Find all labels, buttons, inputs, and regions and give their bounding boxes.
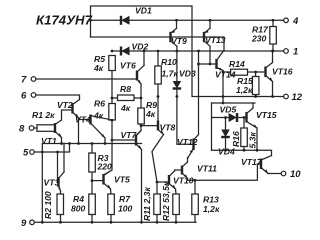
wire bottom rail pin 9 bbox=[34, 221, 196, 223]
svg-text:VT15: VT15 bbox=[256, 110, 277, 120]
resistor R12 53,5к bbox=[173, 194, 180, 215]
wire VD1 line H2 to pin 4 bbox=[91, 19, 284, 21]
wire VD3 vertical from VT9 collector to VT12 base bbox=[176, 46, 178, 81]
svg-text:R16: R16 bbox=[231, 131, 241, 147]
wire pin 6 to VT2 collector bbox=[36, 95, 80, 100]
resistor R5 4к bbox=[109, 56, 116, 71]
svg-text:R2 100: R2 100 bbox=[43, 191, 53, 219]
svg-text:VD2: VD2 bbox=[132, 42, 149, 52]
svg-text:VT12: VT12 bbox=[177, 137, 198, 147]
wire R5/R8/R6 vertical x=112 bbox=[111, 71, 113, 105]
svg-text:9: 9 bbox=[21, 218, 27, 229]
svg-text:VT14: VT14 bbox=[215, 70, 236, 80]
wire VT1 collector to VT2 base bbox=[62, 110, 73, 120]
resistor R15 1,2к bbox=[252, 77, 259, 95]
transistor VT6 bbox=[120, 61, 144, 85]
pin 4 bbox=[284, 18, 289, 23]
svg-text:К174УН7: К174УН7 bbox=[36, 13, 93, 28]
wire VT14 base line bbox=[199, 63, 217, 65]
wire VT6 collector up to VD2 line bbox=[143, 51, 145, 66]
svg-text:R4: R4 bbox=[73, 194, 84, 204]
wire R resistor bottoms to rail bbox=[60, 215, 62, 223]
pin 7 bbox=[31, 77, 36, 82]
svg-text:R10: R10 bbox=[161, 57, 177, 67]
svg-text:VD5: VD5 bbox=[220, 105, 237, 115]
wire VT12 collector up to VD2 line bbox=[198, 51, 200, 135]
svg-text:VT11: VT11 bbox=[197, 164, 217, 174]
wire VT9 emitter up bbox=[176, 20, 178, 28]
svg-text:4: 4 bbox=[292, 16, 299, 27]
transistor VT8 bbox=[158, 121, 175, 135]
transistor VT4 bbox=[75, 115, 111, 139]
svg-text:VT4: VT4 bbox=[75, 115, 91, 125]
svg-text:VD1: VD1 bbox=[135, 6, 152, 16]
svg-text:VT16: VT16 bbox=[272, 67, 293, 77]
wire VT15 collector up to box top bbox=[252, 103, 254, 108]
transistor VT11 bbox=[182, 162, 217, 179]
junction dots bbox=[89, 19, 92, 22]
svg-text:R11 2,3к: R11 2,3к bbox=[142, 187, 152, 221]
svg-text:1,2к: 1,2к bbox=[236, 85, 253, 95]
wire VT3 base drop bbox=[58, 152, 59, 182]
transistor VT15 bbox=[247, 108, 277, 128]
transistor VT9 pnp bbox=[171, 28, 187, 46]
wire pin 7 to VT6 base bbox=[36, 78, 137, 80]
wire bias box left edge bbox=[211, 103, 213, 150]
svg-text:VT2: VT2 bbox=[57, 100, 73, 110]
resistor R6 4к bbox=[109, 104, 116, 121]
svg-text:VT9: VT9 bbox=[171, 36, 187, 46]
resistor R17 230 bbox=[270, 27, 277, 45]
resistor R10 1,7к bbox=[155, 66, 162, 84]
wire VD4 stubs bbox=[225, 118, 227, 130]
wire base rail H3 VT9/VT13 with corner to VT14 collector bbox=[91, 37, 225, 50]
wire VT4 emitter down bbox=[104, 138, 106, 144]
wire R6 bottom to VT7 base junction and VT5 collector bbox=[104, 120, 113, 175]
wire pin 5 lead bbox=[34, 144, 69, 153]
svg-text:4к: 4к bbox=[120, 103, 131, 113]
wire R9 bottom / VT7 collector / VT8 base node bbox=[136, 124, 141, 136]
svg-text:12: 12 bbox=[292, 92, 303, 103]
wire VT13 emitter up bbox=[209, 20, 211, 28]
svg-text:R8: R8 bbox=[120, 84, 131, 94]
pin 10 bbox=[281, 171, 286, 176]
wire R8 right to VT6 emitter vertical bbox=[134, 97, 141, 99]
wire R14 right to VT16 base bbox=[248, 71, 266, 73]
pin 1 bbox=[284, 49, 289, 54]
svg-text:R12 53,5к: R12 53,5к bbox=[161, 181, 171, 221]
transistor VT13 pnp bbox=[204, 28, 226, 46]
wire VT11 collector to VT12 emitter bbox=[187, 158, 190, 163]
wire R10 bottom to VT8 collector bbox=[157, 84, 159, 121]
wire VD2 line to pin 1 bbox=[112, 50, 284, 52]
svg-text:VT17: VT17 bbox=[241, 157, 263, 167]
svg-text:7: 7 bbox=[21, 75, 27, 86]
svg-text:6: 6 bbox=[21, 91, 27, 102]
wire VT5 emitter to R7 bbox=[110, 189, 113, 194]
svg-text:4к: 4к bbox=[93, 111, 104, 121]
wire VT3 emitter to R2 bbox=[60, 191, 62, 194]
wire VT5 base bbox=[92, 180, 104, 182]
wire VT8 base bbox=[141, 125, 158, 127]
svg-text:VT13: VT13 bbox=[205, 35, 226, 45]
wire bias box bottom bbox=[212, 150, 272, 155]
svg-text:R1 2к: R1 2к bbox=[32, 110, 55, 120]
resistor R8 4к horizontal bbox=[118, 95, 135, 101]
svg-text:5,3к: 5,3к bbox=[248, 132, 258, 149]
wire VT2 emitter down / VT4 base bbox=[78, 118, 80, 144]
pin 6 bbox=[31, 93, 36, 98]
wire R8 left stub bbox=[112, 97, 118, 99]
svg-text:4к: 4к bbox=[145, 109, 156, 119]
wire VT10 emitter to R12 bbox=[175, 189, 178, 194]
diode VD1 bbox=[121, 6, 152, 25]
diode VD2 bbox=[121, 42, 148, 56]
pin 8 bbox=[29, 126, 34, 131]
svg-text:VT5: VT5 bbox=[114, 175, 130, 185]
wire VT17 emitter to pin 10 bbox=[268, 173, 281, 175]
svg-text:1,7к: 1,7к bbox=[162, 69, 179, 79]
wire VT13 collector down to VT14 base line bbox=[209, 46, 211, 64]
svg-text:VD4: VD4 bbox=[218, 147, 235, 157]
resistor R1 2к bbox=[37, 125, 55, 132]
wire VT8 emitter path to VT10 base bbox=[152, 135, 164, 183]
wire VT1 emitter down bbox=[61, 138, 63, 144]
wire VT7 base bbox=[112, 139, 136, 141]
wire VT11 emitter line to VT17 base bbox=[188, 164, 262, 180]
resistor R11 2,3к bbox=[154, 194, 161, 215]
wire R17 stubs bbox=[272, 20, 274, 26]
svg-text:VD3: VD3 bbox=[179, 69, 196, 79]
wire R15 stubs bbox=[255, 72, 257, 77]
wire R3 stubs bbox=[91, 144, 93, 154]
resistor R9 4к bbox=[138, 108, 145, 124]
transistor VT2 bbox=[57, 100, 80, 119]
transistor VT1 bbox=[41, 120, 62, 146]
wire VT7 emitter down to rail bbox=[141, 150, 143, 223]
diode VD3 bbox=[173, 69, 196, 89]
svg-text:VT3: VT3 bbox=[44, 178, 60, 188]
wire R16 stubs bbox=[243, 118, 245, 129]
svg-text:4к: 4к bbox=[93, 63, 104, 73]
wire VD5 line VT15 base bbox=[212, 117, 229, 119]
svg-text:5: 5 bbox=[23, 148, 29, 159]
resistor R13 1,2к bbox=[192, 194, 199, 215]
transistor VT10 bbox=[169, 171, 194, 189]
svg-text:VT8: VT8 bbox=[160, 123, 176, 133]
wire R13 top stub bbox=[194, 180, 196, 194]
svg-text:10: 10 bbox=[290, 169, 301, 180]
wire VT10 collector to VT11 base bbox=[175, 170, 183, 171]
svg-text:VT7: VT7 bbox=[121, 130, 138, 140]
wire VT15 emitter down to box bottom bbox=[256, 128, 258, 150]
diode VD4 bbox=[218, 130, 235, 157]
svg-text:R14: R14 bbox=[229, 59, 245, 69]
resistor R4 800 bbox=[89, 194, 96, 215]
svg-text:1,2к: 1,2к bbox=[203, 204, 220, 214]
wire VT16 collector up to pin1 line bbox=[272, 51, 274, 63]
wire VT3 collector up bbox=[63, 144, 65, 173]
transistor VT17 bbox=[241, 156, 272, 174]
transistor VT7 bbox=[121, 130, 142, 150]
svg-text:220: 220 bbox=[97, 162, 113, 172]
svg-text:R13: R13 bbox=[203, 195, 219, 205]
wire R10 top stub to VD2 line bbox=[157, 51, 159, 66]
svg-text:230: 230 bbox=[251, 34, 267, 44]
resistor R16 5,3к bbox=[241, 128, 248, 147]
pin 12 bbox=[284, 94, 289, 99]
resistor R2 100 bbox=[57, 194, 64, 215]
resistor R3 220 bbox=[89, 153, 96, 172]
pin 9 bbox=[30, 220, 35, 225]
transistor VT16 bbox=[266, 63, 293, 82]
svg-text:8: 8 bbox=[19, 124, 25, 135]
svg-text:1: 1 bbox=[293, 47, 298, 58]
transistor VT5 bbox=[104, 170, 130, 189]
wire top rail H1 with corner down x=192 to pin-12 line bbox=[91, 6, 287, 97]
wire VT6 emitter down to R9 bbox=[140, 84, 142, 108]
wire VT14 emitter down to R14 line and bias box bbox=[222, 71, 224, 104]
resistor R14 horizontal bbox=[231, 69, 248, 75]
diode VD5 bbox=[220, 105, 238, 123]
transistor VT14 bbox=[215, 50, 236, 79]
svg-text:VT6: VT6 bbox=[120, 61, 136, 71]
svg-text:800: 800 bbox=[71, 204, 86, 214]
wire bias box top bbox=[212, 102, 256, 104]
transistor VT3 bbox=[44, 172, 65, 191]
svg-text:VT10: VT10 bbox=[173, 176, 194, 186]
wire VT16 emitter down to pin12 line bbox=[272, 82, 274, 97]
svg-text:VT1: VT1 bbox=[41, 136, 57, 146]
transistor VT12 pnp bbox=[177, 135, 199, 158]
wire tail line y=143.5 bbox=[42, 144, 141, 223]
pin 5 bbox=[30, 150, 35, 155]
wire R11 top to VT10 base bbox=[157, 182, 169, 194]
svg-text:R7: R7 bbox=[119, 194, 131, 204]
svg-text:100: 100 bbox=[118, 204, 133, 214]
resistor R7 100 bbox=[108, 194, 115, 215]
svg-text:R6: R6 bbox=[94, 99, 105, 109]
